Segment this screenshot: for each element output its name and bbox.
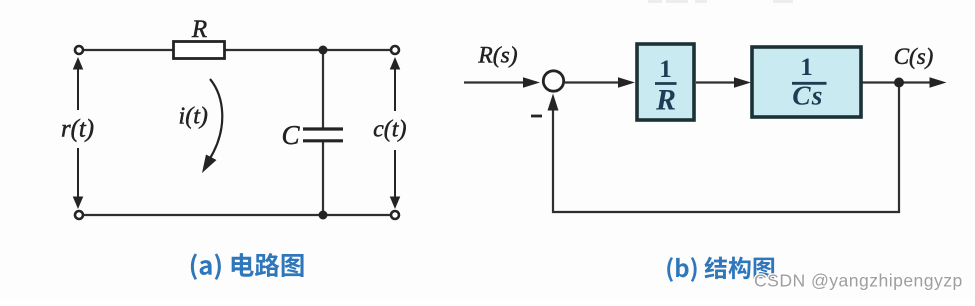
svg-text:Cs: Cs — [792, 80, 823, 111]
svg-text:r(t): r(t) — [61, 116, 94, 143]
svg-text:CSDN @yangzhipengyzp: CSDN @yangzhipengyzp — [754, 271, 963, 291]
svg-text:R: R — [191, 16, 207, 43]
svg-text:C: C — [281, 120, 300, 150]
svg-text:R(s): R(s) — [477, 42, 517, 68]
svg-text:1: 1 — [800, 54, 813, 81]
svg-text:C(s): C(s) — [894, 44, 934, 69]
svg-text:c(t): c(t) — [373, 117, 406, 143]
svg-text:i(t): i(t) — [179, 104, 208, 130]
svg-text:R: R — [655, 84, 676, 117]
svg-text:1: 1 — [659, 56, 672, 83]
